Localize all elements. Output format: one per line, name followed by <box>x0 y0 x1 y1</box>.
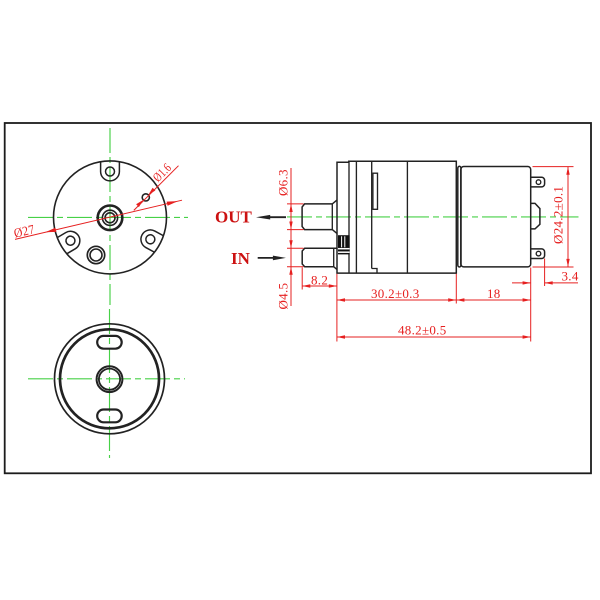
connector block white slits <box>341 236 343 247</box>
arrow D1.6 upper <box>148 188 155 195</box>
body joint line 2 <box>355 161 357 273</box>
arrows D6.3 <box>289 204 292 212</box>
centerline horizontal (side view) <box>287 216 579 218</box>
centerline horizontal (top view) <box>28 216 188 218</box>
mounting tab top (U with hole) <box>101 162 120 181</box>
OUT port outline <box>302 200 337 233</box>
pump body outline <box>337 161 456 273</box>
ext tick IN top <box>287 247 304 249</box>
svg-text:Ø6.3: Ø6.3 <box>276 169 291 196</box>
center hub middle circle <box>102 210 117 225</box>
svg-text:8.2: 8.2 <box>311 273 328 288</box>
border frame <box>5 123 591 473</box>
motor can <box>461 167 531 267</box>
arrow D27 left <box>45 228 56 233</box>
svg-text:48.2±0.5: 48.2±0.5 <box>398 323 447 338</box>
connector block <box>338 235 350 254</box>
cap joint line <box>348 162 350 273</box>
terminal top hole <box>536 180 541 185</box>
bottom cover outer circle <box>55 324 165 434</box>
dim 48.2 <box>337 323 531 339</box>
arrows D4.5 <box>289 240 292 248</box>
hole 1.6 <box>142 194 149 201</box>
svg-text:30.2±0.3: 30.2±0.3 <box>371 286 420 301</box>
ext tick IN bottom <box>287 266 304 268</box>
OUT arrow <box>256 215 286 220</box>
IN port outline <box>302 248 337 269</box>
OUT port flare line <box>331 204 333 230</box>
dim D24.2 <box>533 167 574 267</box>
body joint line 3 <box>371 161 373 268</box>
IN arrow <box>258 256 286 261</box>
terminal bottom <box>531 249 545 259</box>
svg-text:IN: IN <box>231 249 251 268</box>
mounting tab lower-right (U with hole) <box>138 227 164 253</box>
mounting tab lower-left (U with hole) <box>57 228 83 254</box>
svg-text:Ø24.2±0.1: Ø24.2±0.1 <box>551 186 566 244</box>
slot lower <box>97 410 122 423</box>
dim 8.2 <box>302 273 337 288</box>
motor front ring <box>458 166 461 267</box>
hub ring inner <box>99 369 120 390</box>
terminal bottom hole <box>536 251 541 256</box>
ext line pump face <box>336 274 338 342</box>
pump housing outer circle <box>54 161 167 274</box>
svg-text:18: 18 <box>487 286 501 301</box>
side slot <box>373 173 378 209</box>
dim line D1.6 (45 deg leader) <box>134 166 179 211</box>
slot upper <box>97 336 122 349</box>
center hub bore <box>105 213 115 223</box>
terminal top <box>531 177 545 187</box>
svg-text:OUT: OUT <box>215 208 253 227</box>
dim 18 <box>456 286 530 302</box>
ext tick OUT top <box>287 203 304 205</box>
centerline vertical (bottom view) <box>109 309 111 458</box>
IN port flare line <box>333 248 335 266</box>
ext tick OUT bottom <box>287 229 304 231</box>
svg-text:3.4: 3.4 <box>562 269 579 284</box>
dim 30.2 <box>337 286 456 302</box>
ext line motor back <box>530 268 532 342</box>
centerline horizontal (bottom view) <box>28 378 185 380</box>
ext line port tip <box>301 268 303 290</box>
pin boss circle outer <box>87 246 104 263</box>
centerline vertical (top view) <box>109 128 111 305</box>
center hub ring <box>98 206 123 231</box>
ext line terminal tip <box>544 259 546 287</box>
end boss <box>531 203 540 229</box>
svg-text:Ø4.5: Ø4.5 <box>276 283 291 310</box>
dim 3.4 <box>512 269 579 285</box>
arrow D1.6 lower <box>136 200 143 207</box>
bottom cover inner circle <box>60 329 159 428</box>
arrow D27 right <box>167 201 178 206</box>
ext line body right <box>455 274 457 304</box>
hub ring outer <box>97 366 123 392</box>
dim line D6.3/D4.5 vertical <box>290 168 292 306</box>
pin boss circle inner <box>90 249 102 261</box>
dim line D27 <box>15 200 182 239</box>
body joint line 4 <box>406 161 408 273</box>
bottom step <box>372 269 377 274</box>
